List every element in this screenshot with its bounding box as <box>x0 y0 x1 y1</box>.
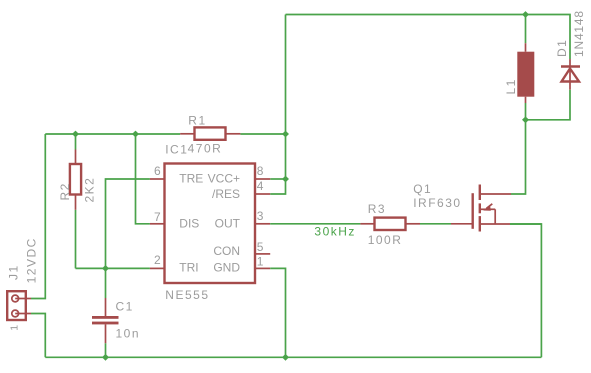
svg-text:R1: R1 <box>188 113 206 127</box>
wire VCC vertical x285 from R1 rail to pin8 node <box>285 134 287 179</box>
wire R3 to gate <box>420 223 451 225</box>
label R2 <box>58 182 72 200</box>
label 12VDC <box>25 237 39 283</box>
svg-text:7: 7 <box>154 210 161 224</box>
svg-text:NE555: NE555 <box>165 288 209 302</box>
wire D1 bottom to node <box>526 90 571 120</box>
node junction at pin8 <box>282 176 289 183</box>
wire L1 top from node <box>525 15 527 44</box>
diode D1 1N4148 <box>561 59 580 90</box>
pin name VCC+ <box>208 172 240 186</box>
pin name TRE <box>179 172 203 186</box>
svg-text:12VDC: 12VDC <box>25 237 39 283</box>
pin number 7 <box>154 210 161 224</box>
node junction top at L1 branch <box>522 11 529 18</box>
label NE555 <box>165 288 209 302</box>
wire GND pin1 to bottom rail <box>270 268 285 357</box>
pin name CON <box>213 244 240 258</box>
wire C1 riser from TRI junction down <box>105 268 107 298</box>
svg-text:Q1: Q1 <box>413 182 432 196</box>
svg-text:GND: GND <box>213 261 240 275</box>
wire J1 bottom pin to bottom rail <box>31 314 45 358</box>
pin name /RES <box>212 187 240 201</box>
wire C1 bottom to bottom rail <box>105 343 107 357</box>
node junction L1/D1/drain <box>522 116 529 123</box>
wire bottom rail <box>45 356 541 358</box>
wire top rail to D1 branch corner <box>526 15 571 60</box>
node junction TRI/C1 <box>102 265 109 272</box>
svg-text:R3: R3 <box>368 202 386 216</box>
wire top rail VCC from node at x285 to L1 branch <box>286 14 526 16</box>
pin name OUT <box>215 216 241 230</box>
node junction DIS riser <box>132 131 139 138</box>
IC U1 NE555 body <box>165 164 256 284</box>
svg-text:/RES: /RES <box>212 187 240 201</box>
pin number 5 <box>257 240 264 254</box>
label IRF630 <box>413 196 461 210</box>
pin number 8 <box>257 164 264 178</box>
node junction GND at bottom rail <box>282 354 289 361</box>
wire L1 bottom to node <box>525 103 527 120</box>
svg-text:470R: 470R <box>188 142 223 156</box>
svg-text:C1: C1 <box>116 299 134 313</box>
label 30kHz net name <box>314 225 356 239</box>
node junction VCC at R1 rail <box>282 131 289 138</box>
svg-text:IC1: IC1 <box>165 143 188 157</box>
resistor R3 <box>360 218 420 230</box>
label L1 <box>504 78 518 94</box>
svg-text:D1: D1 <box>555 39 569 57</box>
svg-text:CON: CON <box>213 244 240 258</box>
pin 4 /RES stub <box>255 193 270 195</box>
label R3 <box>368 202 386 216</box>
resistor R2 <box>70 150 81 210</box>
pin number 1 <box>257 255 264 269</box>
label 2K2 <box>82 177 96 203</box>
svg-text:8: 8 <box>257 164 264 178</box>
svg-text:J1: J1 <box>6 264 20 280</box>
node junction C1 at bottom rail <box>102 354 109 361</box>
svg-text:OUT: OUT <box>215 216 241 230</box>
svg-text:TRI: TRI <box>179 261 198 275</box>
svg-text:2: 2 <box>154 253 161 267</box>
svg-text:3: 3 <box>257 209 264 223</box>
svg-text:2K2: 2K2 <box>82 177 96 203</box>
svg-text:1: 1 <box>9 325 21 331</box>
pin number 3 <box>257 209 264 223</box>
pin number 4 <box>257 179 264 193</box>
wire TRE net: pin6 left then down to TRI junction <box>106 179 150 268</box>
svg-text:IRF630: IRF630 <box>413 196 461 210</box>
pin 8 VCC stub <box>255 178 270 180</box>
svg-text:5: 5 <box>257 240 264 254</box>
pin number 1 of J1 <box>9 325 21 331</box>
label R1 <box>188 113 206 127</box>
svg-text:4: 4 <box>257 179 264 193</box>
svg-text:1N4148: 1N4148 <box>572 10 586 57</box>
pin number 6 <box>154 164 161 178</box>
label 1N4148 <box>572 10 586 57</box>
pin 3 OUT stub <box>255 223 270 225</box>
wire DIS riser vertical <box>136 134 150 224</box>
pin number 2 <box>154 253 161 267</box>
svg-text:VCC+: VCC+ <box>208 172 240 186</box>
wire source riser right side <box>510 224 541 357</box>
label D1 <box>555 39 569 57</box>
node junction R2 top <box>72 131 79 138</box>
svg-text:30kHz: 30kHz <box>314 225 356 239</box>
pin 6 TRE stub <box>150 178 165 180</box>
connector J1 <box>7 291 31 320</box>
label 100R <box>368 233 403 247</box>
pin name DIS <box>179 216 199 230</box>
wire left rail from R1 rail down to J1 top pin <box>31 134 45 299</box>
label 10n <box>116 327 141 341</box>
capacitor C1 <box>92 298 119 343</box>
pin name TRI <box>179 261 198 275</box>
wire pin8 to node <box>270 178 285 180</box>
inductor L1 <box>517 43 534 103</box>
label C1 <box>116 299 134 313</box>
label Q1 <box>413 182 432 196</box>
svg-text:1: 1 <box>257 255 264 269</box>
pin 7 DIS stub <box>150 223 165 225</box>
pin 1 GND stub <box>255 267 270 269</box>
transistor Q1 IRF630 <box>451 185 511 232</box>
wire pin4 /RES to node <box>270 179 285 194</box>
wire R2 top stub to rail <box>75 134 77 150</box>
svg-text:R2: R2 <box>58 182 72 200</box>
wire VCC vertical x285 down to R1 rail <box>285 15 287 135</box>
svg-text:DIS: DIS <box>179 216 199 230</box>
wire R1 rail left segment <box>45 133 180 135</box>
wire OUT net to R3 <box>270 223 360 225</box>
svg-text:6: 6 <box>154 164 161 178</box>
svg-text:L1: L1 <box>504 78 518 94</box>
pin 5 CON stub <box>255 253 270 255</box>
pin name GND <box>213 261 240 275</box>
pin 2 TRI stub <box>150 267 165 269</box>
wire TRI net horizontal <box>76 267 150 269</box>
wire R1 rail right segment <box>240 133 285 135</box>
wire drain to node <box>511 120 526 194</box>
label IC1 <box>165 143 188 157</box>
wire R2 bottom down to TRI net <box>75 210 77 269</box>
label 470R <box>188 142 223 156</box>
svg-text:100R: 100R <box>368 233 403 247</box>
resistor R1 <box>180 127 240 139</box>
label J1 <box>6 264 20 280</box>
svg-text:TRE: TRE <box>179 172 203 186</box>
wire source to riser <box>510 223 541 225</box>
svg-text:10n: 10n <box>116 327 141 341</box>
